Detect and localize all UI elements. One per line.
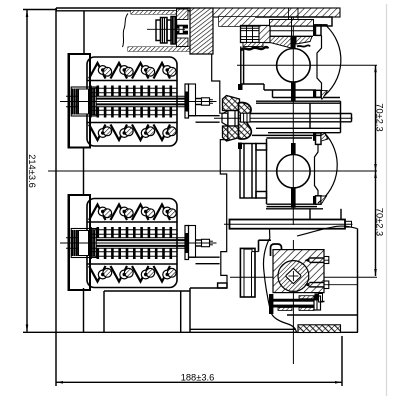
belleville washer stack block	[241, 26, 271, 43]
dome inner profile	[317, 35, 322, 90]
seal washer hatched	[243, 43, 263, 47]
paddle top 1	[89, 205, 106, 221]
vertical centerline output	[292, 240, 294, 364]
shaft centerline	[60, 101, 217, 103]
bearing2 left plate stack	[240, 144, 256, 199]
spring coil right (dark)	[89, 89, 91, 115]
left bracket (thick border)	[69, 54, 91, 148]
housing wall bottom corner (dark)	[238, 84, 243, 90]
bearing2 top hatched wedge	[321, 133, 328, 141]
stub coupling	[202, 239, 210, 246]
floor line right of pedestal	[190, 287, 227, 289]
thick shaft bar below bearing2	[291, 188, 296, 208]
band thick bottom edge right	[312, 24, 328, 26]
top cover band	[56, 7, 190, 9]
extension line right	[341, 336, 343, 386]
plate B (right, between band and bearing2)	[309, 209, 311, 220]
bearing1 housing bottom steps	[241, 83, 264, 85]
bolt below block: shank	[272, 300, 314, 302]
separator band outer	[230, 220, 346, 229]
thick flange bar left of bolt	[269, 294, 273, 314]
centerline bearing1	[237, 64, 377, 66]
wall bolt hex head	[222, 111, 240, 127]
housing S-curve left of output block	[264, 229, 297, 332]
wall foot block	[218, 283, 227, 288]
wall bolt gasket upper (crosshatch)	[223, 96, 240, 111]
dimension 214±3.6 vertical line	[26, 10, 28, 332]
spring coil left (dark)	[71, 89, 73, 115]
chamber bolt washer stack	[156, 20, 161, 41]
bolt holes through band	[288, 8, 290, 26]
output shaft circle (fine hatch)	[278, 261, 309, 292]
seal wedge right (hatched)	[270, 37, 291, 49]
svg-text:214±3.6: 214±3.6	[27, 154, 37, 188]
shaft flange	[185, 226, 189, 260]
plate A top edges	[256, 100, 341, 102]
bolt below: hatched washer strips	[299, 296, 314, 299]
svg-text:70±2.3: 70±2.3	[374, 208, 384, 236]
intermediate stub shaft lines	[250, 113, 352, 115]
left outer wall	[55, 8, 57, 332]
bearing2 dome inner profile	[315, 144, 319, 195]
thick shaft bar above bearing1	[291, 37, 296, 49]
bottom inner line right	[190, 328, 296, 330]
anchor plate hatched top	[177, 9, 189, 20]
bearing1 ball circle	[277, 49, 311, 83]
gearbox wall (stepped)	[212, 54, 228, 288]
shaft thin lines	[66, 237, 185, 239]
inner wall mid (between brackets)	[83, 148, 85, 196]
agitator body (rounded)	[87, 57, 177, 146]
paddle bottom 1	[89, 266, 106, 282]
spring box	[71, 87, 96, 116]
bracket thick left edge	[68, 54, 70, 148]
support rod to wall	[189, 115, 220, 117]
plate A bottom edges	[256, 127, 341, 129]
stub end cap	[351, 114, 353, 122]
top cover plate lower band	[219, 17, 332, 26]
paddle bottom 2	[111, 266, 128, 282]
top set bolt	[305, 258, 310, 262]
spring coil left (dark)	[71, 230, 73, 256]
chamber bolt shank black bars	[177, 25, 189, 29]
bearing2 top tab	[316, 133, 322, 144]
anchor plate hatched bottom	[177, 38, 189, 47]
spring box	[71, 229, 96, 258]
paddle top 1	[89, 63, 106, 79]
chamber bolt body	[171, 17, 177, 45]
bearing2 housing left step bottom	[256, 192, 267, 199]
arrow top	[26, 10, 29, 17]
bearing2 housing top edges	[252, 134, 325, 136]
break line wavy left	[123, 14, 129, 48]
washer inner lines	[162, 18, 164, 44]
pedestal right edge	[357, 315, 359, 332]
paddle top 2	[111, 205, 128, 221]
bearing2 bottom hatched wedge	[321, 196, 327, 203]
paddle top 3	[132, 205, 149, 221]
right dimension line 70±2.3 (x2)	[375, 65, 377, 276]
spring coil right (dark)	[89, 230, 91, 256]
paddle top 4	[154, 205, 171, 221]
svg-text:188±3.6: 188±3.6	[181, 373, 215, 383]
paddle bottom 1	[89, 125, 106, 141]
top cover hatched underside strip	[131, 11, 176, 14]
gearbox wall block (hatched)	[190, 8, 213, 54]
inner wall lower	[83, 288, 85, 332]
body bottom line	[23, 331, 358, 333]
stud vertical	[291, 17, 293, 42]
bracket thick left edge	[68, 195, 70, 290]
dome bottom hatched wedge	[322, 91, 328, 99]
bearing2 ball circle	[277, 155, 310, 188]
shaft thin lines	[66, 95, 185, 97]
flange block	[189, 84, 196, 116]
column inner edge	[180, 291, 182, 332]
bolt shank upper hatched strip	[270, 20, 314, 27]
plate A right edge	[340, 101, 342, 133]
paddle bottom 4	[154, 266, 171, 282]
arrow up at bearing1 center	[374, 65, 377, 72]
stub shaft	[196, 98, 202, 100]
paddle bottom 3	[132, 125, 149, 141]
dimension 188±3.6 horizontal line	[56, 381, 342, 383]
white cap top-left of block	[271, 244, 282, 256]
bolt below: head	[314, 296, 321, 310]
extension line left (left wall extended)	[55, 333, 57, 386]
stub shaft	[196, 239, 202, 241]
plate stack top corner (dark)	[238, 143, 242, 150]
lip seal wavy bold	[241, 47, 268, 50]
S-curve housing wall upper	[297, 226, 358, 236]
pedestal box	[104, 290, 190, 292]
bolt shank lines	[270, 35, 314, 37]
plate A inner verticals	[309, 103, 311, 128]
wall bolt gasket lower (crosshatch)	[223, 126, 240, 141]
svg-text:70±2.3: 70±2.3	[374, 103, 384, 131]
dome bottom tab	[316, 90, 322, 97]
paddle bottom 2	[111, 125, 128, 141]
paddle bottom 3	[132, 266, 149, 282]
comb cross lines	[89, 87, 177, 89]
shaft tube thick walls	[96, 239, 185, 241]
pedestal crosshatch strip	[298, 325, 341, 333]
top cover plate hatched strip	[213, 8, 340, 17]
bottom set bolt	[305, 283, 310, 287]
shaft flange	[185, 84, 189, 118]
left bracket (thick border)	[69, 195, 91, 290]
shaft tube thick walls	[96, 98, 185, 100]
seal gasket blob left (crosshatch B-shape)	[239, 103, 252, 140]
inner body lines	[87, 80, 177, 82]
stub coupling	[202, 98, 210, 105]
bearing2 housing left step top	[256, 144, 267, 151]
arrow right	[335, 381, 342, 384]
agitator body (rounded)	[87, 199, 177, 288]
bearing2 dome cap arc	[318, 133, 337, 203]
separator band centerline	[224, 223, 353, 225]
pedestal top line	[287, 314, 358, 316]
right wall	[357, 229, 359, 315]
bearing2 bottom tab	[316, 196, 322, 204]
center square hole (white)	[286, 268, 301, 283]
thick shaft bar below bearing1	[291, 82, 296, 101]
faint page artifact line	[386, 4, 388, 396]
paddle top 4	[154, 63, 171, 79]
bolt head (hatched)	[259, 26, 270, 43]
centerline bearing2 (extends across machine)	[48, 170, 377, 172]
paddle top 2	[111, 63, 128, 79]
separator band right stub	[345, 221, 352, 227]
paddle bottom 4	[154, 125, 171, 141]
bearing2 housing bottom edges	[267, 203, 318, 205]
arrows at bearing2 center	[374, 164, 377, 171]
chamber floor hatched strip	[128, 47, 190, 51]
arrow bottom	[26, 325, 29, 332]
vertical centerline bearings	[292, 17, 294, 225]
centerline output shaft	[230, 276, 377, 278]
spring inner block	[79, 89, 89, 114]
comb cross lines	[89, 229, 177, 231]
small wavy seal right	[297, 45, 310, 46]
flange block	[189, 226, 196, 258]
rod end nut (white)	[241, 113, 251, 122]
bearing1 housing left wall (double)	[240, 47, 242, 85]
arrow down at output center	[374, 269, 377, 276]
bearing1 dome cap arc	[322, 26, 341, 98]
spring inner block	[79, 231, 89, 256]
thick shaft bar above bearing2	[291, 143, 296, 155]
band partially hatched left	[219, 17, 255, 26]
seal wedge right of shaft (hatched)	[296, 37, 312, 45]
output left plate top lines	[244, 248, 252, 250]
center mark	[288, 275, 298, 277]
shaft centerline	[60, 242, 217, 244]
chamber centerline	[147, 28, 185, 30]
small fixing bolt below right	[315, 294, 319, 301]
arrow left	[56, 381, 63, 384]
output left plate stack	[240, 248, 255, 297]
comb bars	[89, 86, 92, 97]
thick corner left of output block	[258, 240, 260, 251]
paddle top 3	[132, 63, 149, 79]
inner body lines	[87, 221, 177, 223]
comb bars	[89, 227, 92, 238]
output block square (hatched)	[273, 250, 324, 293]
shank nut white gap	[179, 26, 183, 33]
dome top tab	[316, 25, 322, 35]
support rod to wall	[189, 256, 220, 258]
dimension 214±3.6 left extension line top	[23, 9, 57, 11]
inner wall upper	[83, 11, 85, 54]
bearing2 housing left wall	[266, 139, 268, 204]
